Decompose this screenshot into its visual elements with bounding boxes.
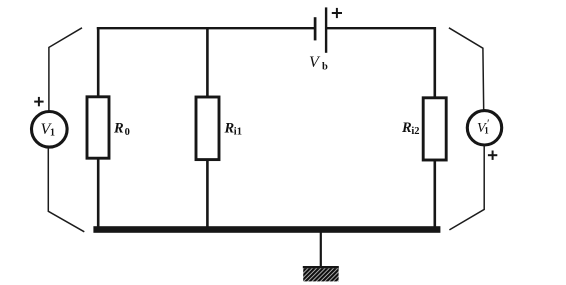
- svg-text:i1: i1: [234, 126, 242, 137]
- battery Vb: [315, 7, 326, 52]
- right bracket bottom: [449, 145, 484, 230]
- source V1': [467, 111, 501, 145]
- svg-text:i2: i2: [411, 126, 419, 137]
- battery plus sign: [332, 8, 342, 18]
- wire Ri2 branch top: [433, 27, 436, 99]
- resistor Ri1: [196, 97, 219, 160]
- ground bus: [93, 226, 440, 233]
- wire Ri1 branch bottom: [206, 160, 209, 230]
- plus sign V1': [488, 151, 497, 160]
- svg-text:V: V: [309, 54, 321, 71]
- svg-text:′: ′: [487, 116, 490, 130]
- wire top right horizontal: [326, 27, 436, 29]
- wire R0 branch top: [97, 27, 100, 98]
- wire R0 branch bottom: [97, 158, 100, 230]
- wire top left horizontal: [97, 27, 315, 29]
- resistor Ri2: [423, 98, 446, 160]
- svg-text:R: R: [401, 120, 412, 136]
- svg-text:1: 1: [50, 128, 55, 139]
- wire Ri2 branch bottom: [433, 160, 436, 228]
- svg-text:b: b: [322, 62, 328, 73]
- wire ground stem: [320, 232, 322, 267]
- resistor R0: [87, 97, 109, 158]
- right bracket top: [449, 28, 484, 111]
- ground: [303, 266, 339, 281]
- source V1: [32, 112, 68, 148]
- svg-text:R: R: [113, 121, 124, 137]
- plus sign V1: [34, 97, 43, 106]
- svg-text:0: 0: [125, 127, 130, 138]
- wire Ri1 branch top: [206, 27, 209, 98]
- left bracket bottom: [48, 148, 84, 232]
- left bracket top: [49, 28, 82, 111]
